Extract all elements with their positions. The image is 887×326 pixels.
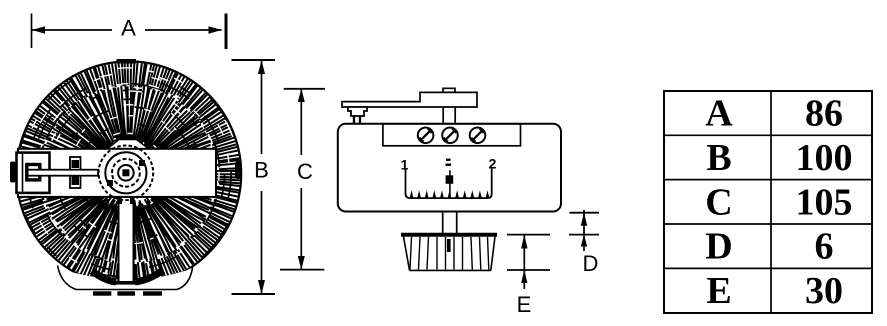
svg-text:B: B bbox=[706, 137, 731, 179]
bottom shaft bbox=[443, 212, 457, 235]
svg-text:6: 6 bbox=[815, 226, 834, 268]
cross piece on shaft bbox=[70, 157, 81, 188]
lever button bbox=[348, 107, 367, 116]
timer body bbox=[338, 124, 561, 212]
dimension E ticks bbox=[507, 234, 550, 236]
fan outline circle bbox=[16, 61, 241, 286]
svg-text:D: D bbox=[583, 251, 599, 276]
connector inner square bbox=[27, 165, 40, 180]
dimension A line bbox=[32, 29, 222, 31]
dimension E arrowheads bbox=[521, 235, 527, 249]
dimension A arrowheads bbox=[32, 26, 45, 34]
impeller cup bbox=[404, 237, 496, 271]
dimension B arrowheads bbox=[258, 60, 265, 74]
svg-text:2: 2 bbox=[489, 156, 497, 172]
dimension C line bbox=[300, 89, 302, 270]
left tab bbox=[10, 162, 16, 183]
dimension D ticks bbox=[570, 212, 600, 214]
screw at x=477.5 bbox=[470, 128, 486, 144]
impeller top plate bbox=[401, 233, 497, 237]
screw at x=450.0 bbox=[442, 128, 458, 144]
svg-text:E: E bbox=[517, 292, 532, 317]
vertical stem bbox=[118, 196, 135, 281]
svg-text:C: C bbox=[297, 159, 313, 184]
svg-text:100: 100 bbox=[796, 137, 853, 179]
svg-text:30: 30 bbox=[805, 270, 843, 312]
horizontal bar bbox=[18, 149, 216, 197]
hub concentric circles bbox=[99, 146, 154, 201]
dimension D arrowheads bbox=[581, 213, 587, 226]
dimension E line bbox=[523, 235, 525, 289]
shaft connector to hub bbox=[28, 170, 99, 176]
stem foot black bar bbox=[115, 281, 136, 285]
hub mount above bar bbox=[107, 140, 149, 150]
connector box bbox=[17, 153, 50, 193]
dimension D line bbox=[583, 210, 585, 251]
scale center marks bbox=[446, 159, 451, 161]
svg-text:B: B bbox=[254, 158, 269, 183]
svg-text:105: 105 bbox=[796, 181, 853, 223]
scale ticks bbox=[410, 190, 490, 198]
screw at x=425.6 bbox=[418, 128, 434, 144]
svg-text:E: E bbox=[706, 270, 731, 312]
scale frame bbox=[406, 169, 492, 199]
dimension C ticks bbox=[284, 88, 325, 90]
fan top cap bbox=[117, 59, 137, 64]
svg-text:A: A bbox=[121, 16, 136, 41]
dimension B ticks bbox=[232, 59, 276, 61]
dimension A extension lines bbox=[31, 14, 33, 49]
bottom rim dark arcs bbox=[92, 271, 116, 282]
dimension table bbox=[664, 91, 872, 313]
svg-text:A: A bbox=[705, 93, 733, 135]
lever arm top tab bbox=[443, 88, 455, 92]
timer lever arm bbox=[342, 92, 477, 107]
right tab bbox=[235, 161, 241, 179]
dimension B line bbox=[261, 60, 263, 294]
scale pointer bbox=[449, 170, 451, 195]
svg-text:86: 86 bbox=[805, 93, 843, 135]
base feet bbox=[93, 291, 111, 295]
base plate (white band over disc bottom) bbox=[58, 266, 193, 290]
fan clutch front view: blade texture bbox=[17, 62, 240, 285]
svg-text:D: D bbox=[705, 226, 732, 268]
screw panel bbox=[383, 124, 521, 146]
svg-text:C: C bbox=[705, 181, 732, 223]
lever shaft bbox=[443, 107, 455, 124]
dimension C arrowheads bbox=[298, 89, 305, 102]
